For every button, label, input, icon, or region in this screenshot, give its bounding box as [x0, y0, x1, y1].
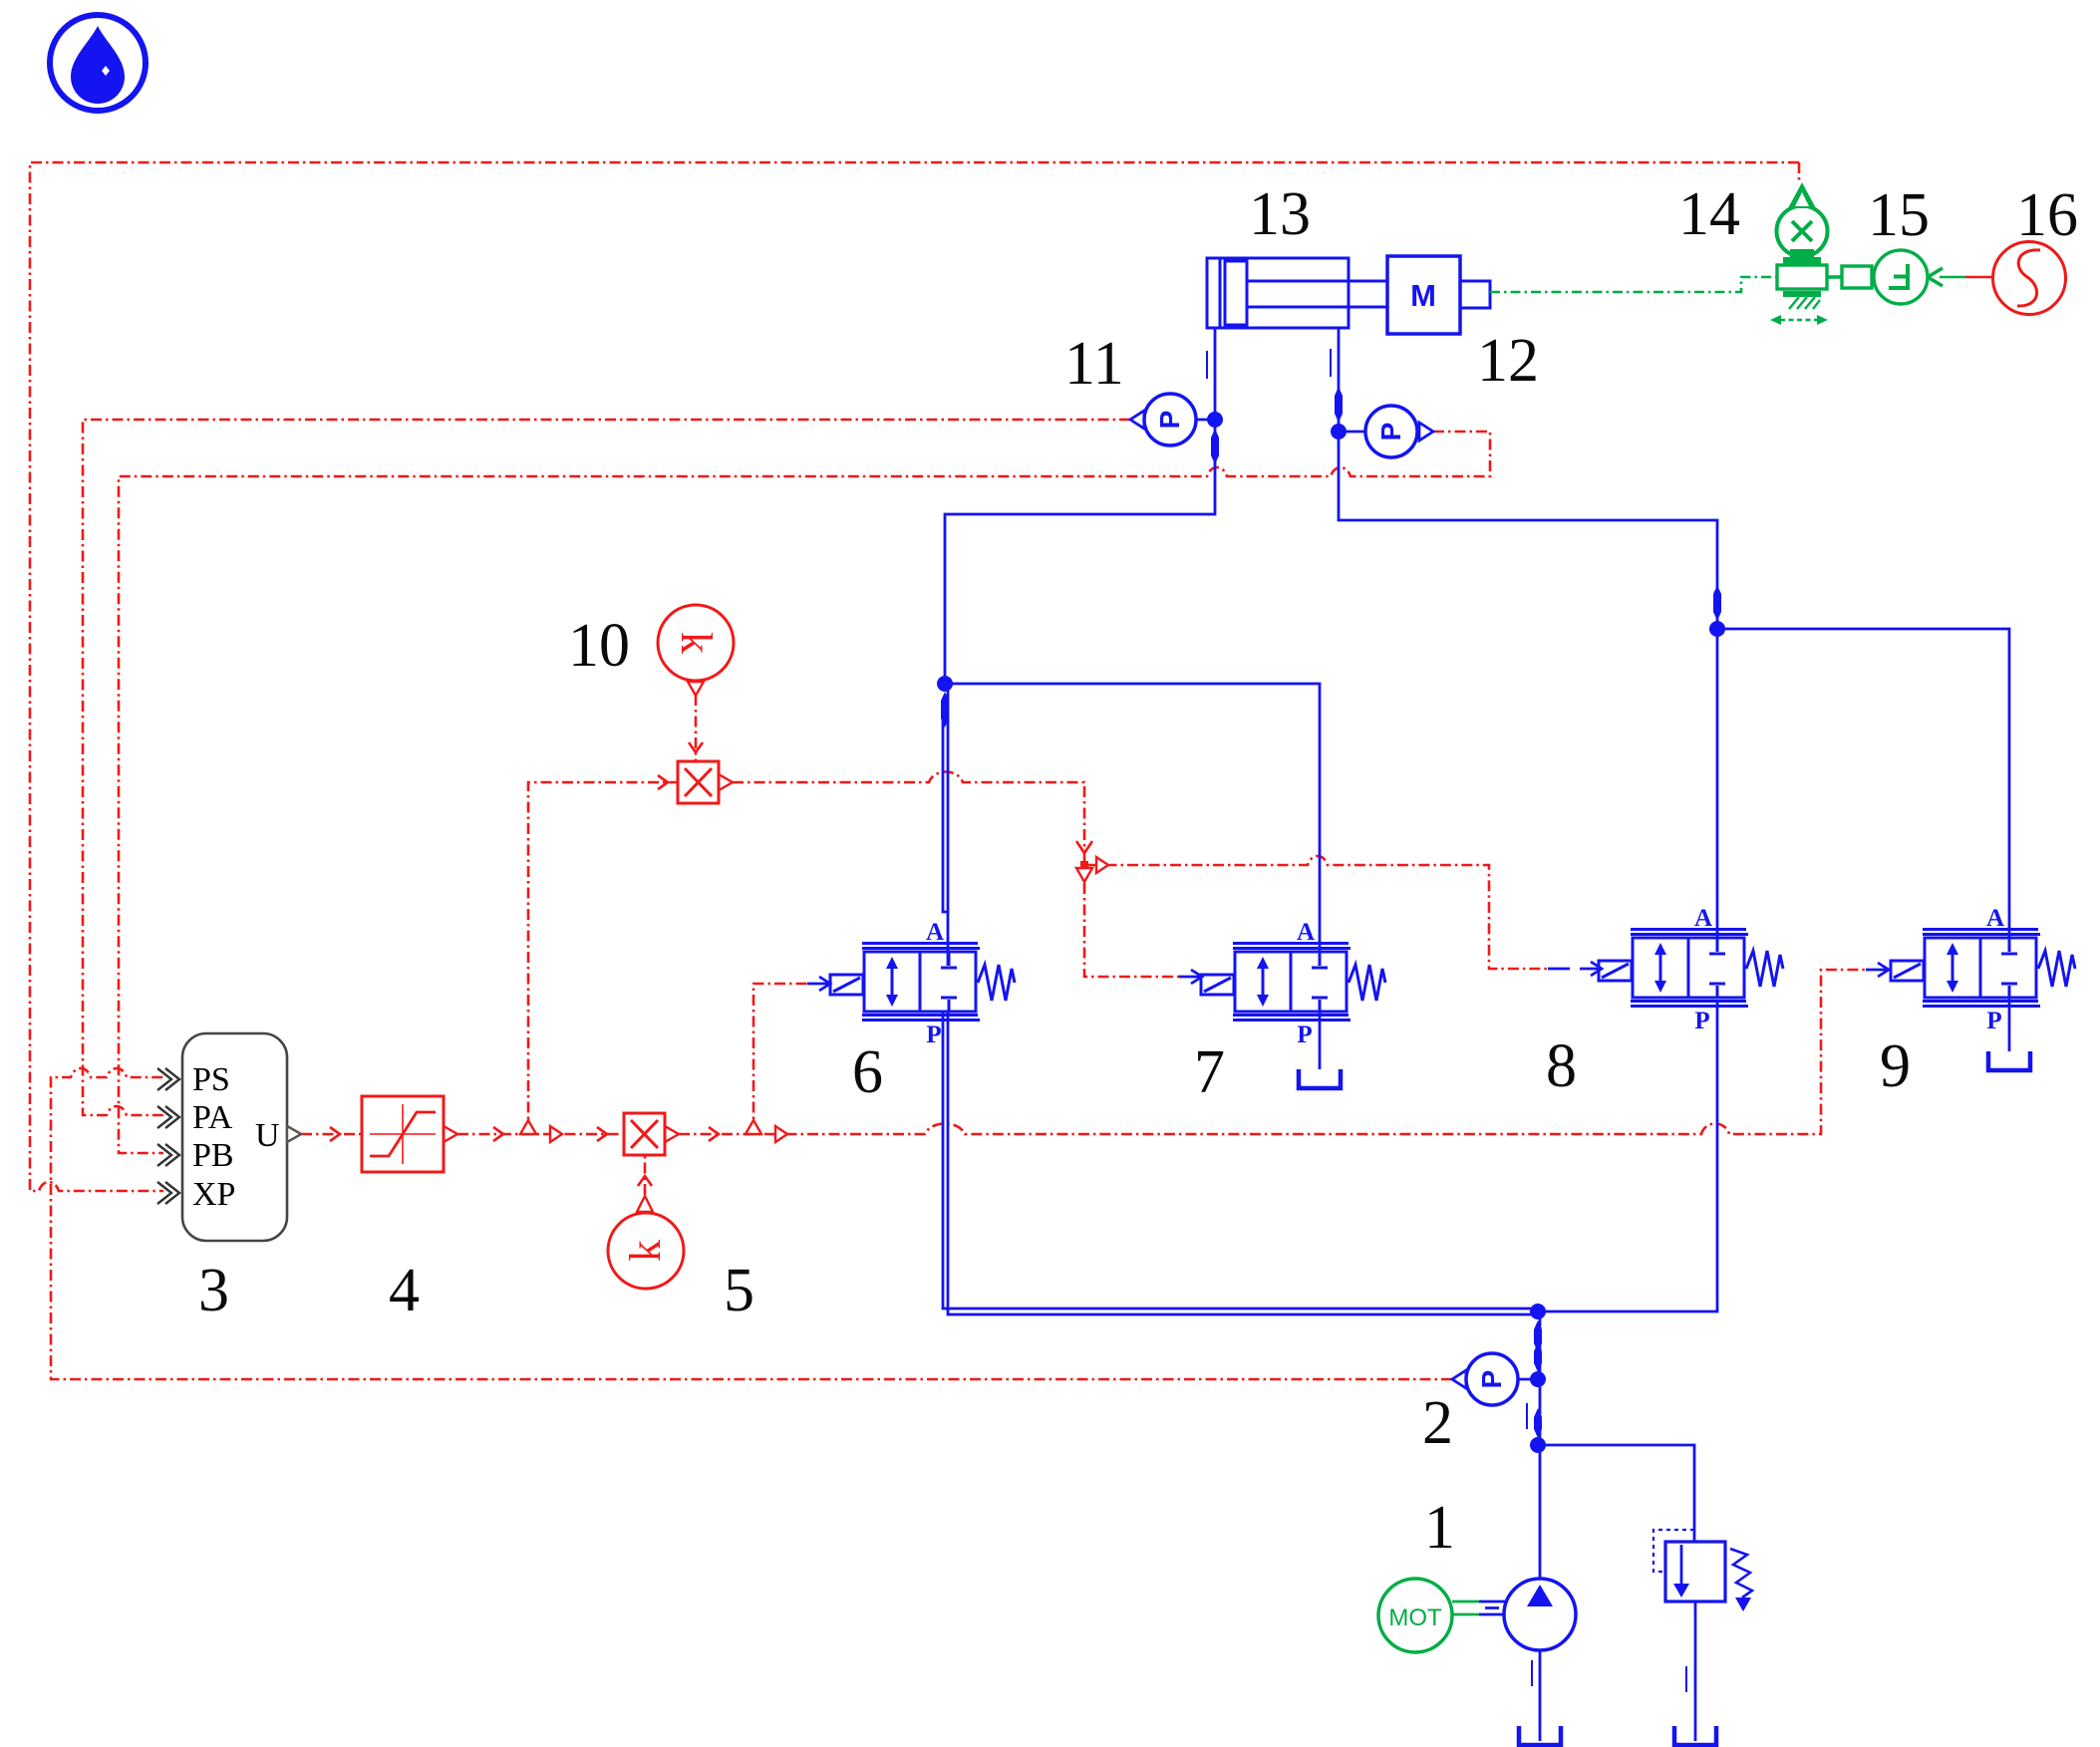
svg-text:2: 2 — [1422, 1389, 1453, 1457]
svg-text:A: A — [1694, 905, 1712, 932]
svg-text:A: A — [1297, 919, 1315, 946]
svg-text:P: P — [926, 1021, 941, 1048]
svg-text:14: 14 — [1678, 180, 1740, 248]
svg-text:P: P — [1297, 1021, 1312, 1048]
svg-text:PB: PB — [192, 1137, 234, 1174]
svg-text:8: 8 — [1546, 1032, 1577, 1100]
svg-text:P: P — [1986, 1008, 2001, 1034]
svg-text:P: P — [1694, 1008, 1709, 1034]
svg-text:k: k — [672, 632, 721, 654]
svg-text:3: 3 — [198, 1257, 229, 1324]
svg-text:U: U — [255, 1117, 280, 1154]
svg-text:15: 15 — [1868, 181, 1930, 249]
svg-text:A: A — [926, 919, 944, 946]
svg-text:9: 9 — [1880, 1032, 1911, 1100]
svg-text:PA: PA — [192, 1099, 233, 1136]
svg-text:5: 5 — [724, 1257, 754, 1324]
svg-text:16: 16 — [2016, 181, 2078, 249]
svg-text:10: 10 — [568, 612, 630, 680]
svg-text:MOT: MOT — [1388, 1604, 1442, 1631]
svg-text:M: M — [1410, 278, 1436, 313]
svg-text:7: 7 — [1194, 1038, 1225, 1106]
svg-text:1: 1 — [1424, 1494, 1455, 1562]
svg-text:k: k — [621, 1240, 670, 1262]
svg-text:11: 11 — [1064, 330, 1124, 398]
svg-text:12: 12 — [1477, 327, 1539, 395]
svg-text:A: A — [1986, 905, 2004, 932]
svg-text:6: 6 — [852, 1038, 883, 1106]
svg-text:XP: XP — [192, 1176, 235, 1213]
svg-text:13: 13 — [1249, 180, 1311, 248]
svg-text:4: 4 — [389, 1257, 420, 1324]
svg-text:PS: PS — [192, 1061, 230, 1098]
